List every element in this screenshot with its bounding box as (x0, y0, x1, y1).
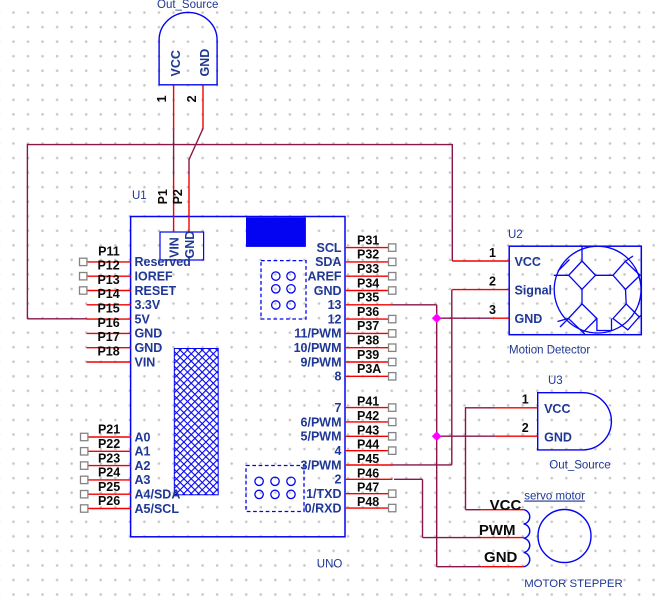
svg-text:P38: P38 (357, 334, 379, 348)
svg-text:P12: P12 (97, 259, 119, 273)
svg-text:P44: P44 (357, 438, 379, 452)
svg-text:1/TXD: 1/TXD (306, 487, 341, 501)
svg-text:GND: GND (314, 284, 342, 298)
svg-text:P34: P34 (357, 276, 379, 290)
svg-text:VCC: VCC (515, 255, 541, 269)
svg-text:SCL: SCL (317, 241, 342, 255)
svg-text:P37: P37 (357, 319, 379, 333)
svg-text:P22: P22 (98, 437, 120, 451)
svg-text:P32: P32 (357, 248, 379, 262)
svg-text:MOTOR STEPPER: MOTOR STEPPER (524, 578, 623, 590)
svg-text:A0: A0 (135, 430, 151, 444)
svg-text:P23: P23 (98, 451, 120, 465)
svg-text:SDA: SDA (315, 255, 341, 269)
svg-text:GND: GND (135, 341, 163, 355)
svg-text:P24: P24 (98, 466, 120, 480)
svg-text:GND: GND (183, 231, 197, 259)
svg-text:servo motor: servo motor (524, 491, 585, 503)
svg-text:IOREF: IOREF (135, 270, 174, 284)
svg-text:VIN: VIN (135, 355, 156, 369)
svg-text:U1: U1 (132, 190, 147, 202)
svg-text:VIN: VIN (168, 237, 182, 258)
svg-text:3: 3 (489, 303, 496, 317)
svg-text:2: 2 (522, 421, 529, 435)
svg-text:GND: GND (135, 327, 163, 341)
svg-text:5/PWM: 5/PWM (301, 430, 342, 444)
svg-text:P17: P17 (97, 330, 119, 344)
svg-text:P1: P1 (156, 189, 170, 204)
svg-text:P45: P45 (357, 452, 379, 466)
svg-text:P18: P18 (97, 344, 119, 358)
svg-text:U3: U3 (548, 375, 563, 387)
svg-text:P25: P25 (98, 480, 120, 494)
svg-text:GND: GND (198, 49, 212, 77)
svg-text:P13: P13 (97, 273, 119, 287)
svg-text:GND: GND (484, 549, 518, 566)
svg-text:P16: P16 (97, 316, 119, 330)
svg-text:A5/SCL: A5/SCL (135, 502, 180, 516)
svg-text:4: 4 (335, 444, 342, 458)
svg-text:Out_Source: Out_Source (157, 0, 218, 11)
svg-text:P33: P33 (357, 262, 379, 276)
svg-text:0/RXD: 0/RXD (305, 501, 342, 515)
svg-text:VCC: VCC (544, 402, 570, 416)
svg-text:A4/SDA: A4/SDA (135, 488, 181, 502)
svg-text:12: 12 (328, 312, 342, 326)
svg-text:A2: A2 (135, 459, 151, 473)
svg-text:Out_Source: Out_Source (549, 460, 610, 472)
svg-text:A1: A1 (135, 445, 151, 459)
svg-text:PWM: PWM (479, 522, 516, 539)
svg-text:A3: A3 (135, 473, 151, 487)
svg-text:P3A: P3A (357, 362, 381, 376)
svg-text:P43: P43 (357, 423, 379, 437)
svg-text:VCC: VCC (490, 497, 522, 514)
svg-text:6/PWM: 6/PWM (301, 415, 342, 429)
svg-text:3/PWM: 3/PWM (301, 458, 342, 472)
svg-text:P31: P31 (357, 233, 379, 247)
svg-text:RESET: RESET (135, 284, 177, 298)
svg-text:5V: 5V (135, 312, 151, 326)
svg-text:P47: P47 (357, 481, 379, 495)
svg-text:1: 1 (489, 246, 496, 260)
svg-text:P46: P46 (357, 466, 379, 480)
svg-text:2: 2 (335, 473, 342, 487)
svg-text:8: 8 (335, 370, 342, 384)
svg-text:1: 1 (155, 95, 169, 102)
svg-text:AREF: AREF (307, 270, 341, 284)
svg-text:13: 13 (328, 298, 342, 312)
svg-text:2: 2 (489, 275, 496, 289)
svg-text:1: 1 (522, 393, 529, 407)
svg-text:P26: P26 (98, 494, 120, 508)
svg-text:11/PWM: 11/PWM (294, 327, 341, 341)
svg-text:P41: P41 (357, 395, 379, 409)
svg-text:7: 7 (335, 401, 342, 415)
svg-text:GND: GND (515, 312, 543, 326)
svg-text:P39: P39 (357, 348, 379, 362)
svg-text:P42: P42 (357, 409, 379, 423)
svg-text:U2: U2 (508, 229, 523, 241)
svg-text:GND: GND (544, 430, 572, 444)
svg-text:P35: P35 (357, 291, 379, 305)
svg-text:P21: P21 (98, 423, 120, 437)
svg-text:UNO: UNO (317, 559, 343, 571)
svg-text:VCC: VCC (169, 50, 183, 76)
svg-text:10/PWM: 10/PWM (294, 341, 342, 355)
svg-text:3.3V: 3.3V (135, 298, 161, 312)
svg-text:P15: P15 (97, 302, 119, 316)
svg-text:Signal: Signal (515, 284, 553, 298)
svg-text:Motion Detector: Motion Detector (509, 345, 590, 357)
svg-text:P14: P14 (97, 287, 119, 301)
svg-text:P2: P2 (171, 189, 185, 204)
svg-text:9/PWM: 9/PWM (301, 355, 342, 369)
svg-text:2: 2 (185, 95, 199, 102)
svg-text:P48: P48 (357, 495, 379, 509)
svg-text:P36: P36 (357, 305, 379, 319)
svg-text:P11: P11 (98, 244, 120, 258)
